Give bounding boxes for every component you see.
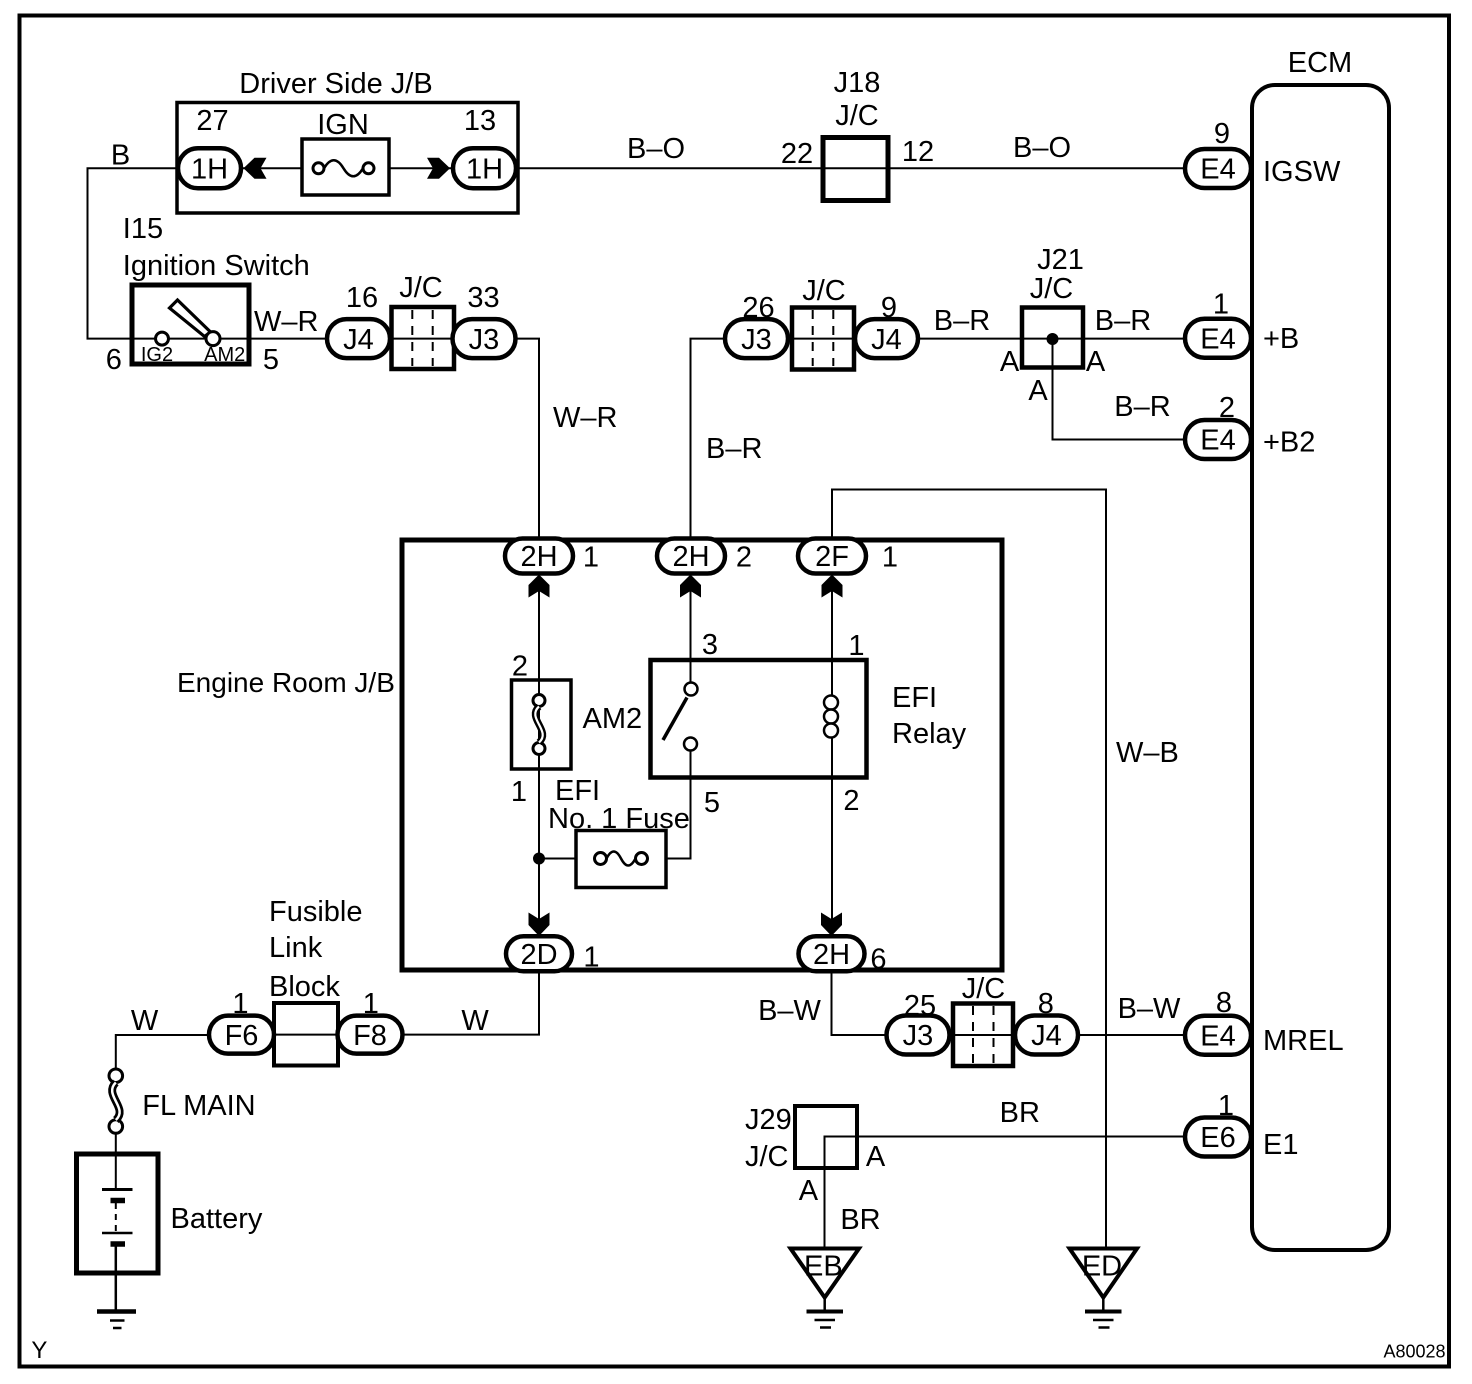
svg-text:EFI: EFI xyxy=(892,682,937,714)
svg-text:A80028: A80028 xyxy=(1384,1342,1446,1362)
wire from 2H-1 through AM2 fuse to 2D-1 xyxy=(538,575,540,936)
svg-text:J3: J3 xyxy=(469,324,500,356)
connector 2H pin 6 xyxy=(799,936,887,975)
connector 2F pin 1 xyxy=(798,539,898,574)
connector J4 pin 8 xyxy=(1015,988,1078,1055)
arrow into 2H-2 xyxy=(680,575,701,598)
svg-text:E4: E4 xyxy=(1200,425,1235,457)
fuse IGN xyxy=(302,109,389,195)
junction block Driver Side J/B xyxy=(177,68,518,213)
svg-text:F8: F8 xyxy=(353,1020,387,1052)
svg-text:2H: 2H xyxy=(813,939,850,971)
wire W-B from 2F-1 over to ED ground xyxy=(832,490,1179,1249)
svg-text:8: 8 xyxy=(1216,987,1232,1019)
svg-text:J/C: J/C xyxy=(835,100,879,132)
wire B-R from J3-26 down to 2H-2 xyxy=(691,339,763,539)
wire from EFI No.1 fuse to junction node xyxy=(539,858,576,860)
connector 1H pin 13 xyxy=(453,105,516,188)
svg-text:J/C: J/C xyxy=(399,272,443,304)
svg-text:F6: F6 xyxy=(225,1020,259,1052)
connector 2D pin 1 xyxy=(506,936,600,973)
arrow into 2H-1 xyxy=(529,575,550,598)
svg-text:J4: J4 xyxy=(343,324,374,356)
svg-text:5: 5 xyxy=(263,344,279,376)
svg-text:+B2: +B2 xyxy=(1263,427,1315,459)
svg-text:J18: J18 xyxy=(834,67,881,99)
svg-text:B–W: B–W xyxy=(758,995,821,1027)
svg-text:A: A xyxy=(799,1175,819,1207)
svg-text:1: 1 xyxy=(1218,1090,1234,1122)
junction node A in J21 xyxy=(1047,334,1058,345)
wire W-R from ignition switch to J4-16 xyxy=(251,306,327,339)
connector F6 pin 1 xyxy=(209,988,274,1054)
connector E6 pin 1 E1 xyxy=(1185,1090,1298,1161)
connector E4 pin 8 MREL xyxy=(1185,987,1344,1057)
svg-text:16: 16 xyxy=(346,282,378,314)
svg-text:J4: J4 xyxy=(1031,1020,1062,1052)
svg-text:+B: +B xyxy=(1263,323,1299,355)
junction connector J/C 25-8 xyxy=(953,973,1013,1066)
svg-text:IGN: IGN xyxy=(317,109,369,141)
svg-text:1: 1 xyxy=(363,988,379,1020)
svg-text:1: 1 xyxy=(583,542,599,574)
junction node on AM2 wire xyxy=(534,853,545,864)
svg-text:Battery: Battery xyxy=(171,1203,263,1235)
svg-text:27: 27 xyxy=(196,105,228,137)
svg-text:J/C: J/C xyxy=(802,275,846,307)
svg-text:W: W xyxy=(461,1005,489,1037)
svg-text:E1: E1 xyxy=(1263,1129,1298,1161)
svg-text:1H: 1H xyxy=(191,154,228,186)
svg-text:2: 2 xyxy=(736,542,752,574)
svg-text:22: 22 xyxy=(781,138,813,170)
fuse EFI No. 1 Fuse xyxy=(548,775,690,888)
junction block Engine Room J/B xyxy=(177,540,1002,970)
connector J3 pin 25 xyxy=(887,990,950,1055)
connector J3 pin 26 xyxy=(725,292,788,358)
svg-text:12: 12 xyxy=(902,136,934,168)
svg-text:1H: 1H xyxy=(466,154,503,186)
svg-text:AM2: AM2 xyxy=(583,703,643,735)
svg-text:E4: E4 xyxy=(1200,323,1235,355)
wire through J/C 16-33 xyxy=(391,338,455,340)
svg-text:E4: E4 xyxy=(1200,1021,1235,1053)
svg-text:A: A xyxy=(1000,346,1020,378)
svg-text:1: 1 xyxy=(232,988,248,1020)
ground EB xyxy=(791,1249,860,1328)
svg-text:Driver Side J/B: Driver Side J/B xyxy=(239,68,432,100)
wire B-W from 2H-6 to J3-25 xyxy=(758,971,887,1035)
svg-text:2: 2 xyxy=(1219,392,1235,424)
svg-text:B–W: B–W xyxy=(1118,993,1181,1025)
svg-text:Link: Link xyxy=(269,932,323,964)
ground ED xyxy=(1070,1249,1138,1328)
wire B-R from J21 node A down to E4-2 xyxy=(1053,339,1186,440)
svg-text:J3: J3 xyxy=(741,324,772,356)
svg-text:3: 3 xyxy=(702,629,718,661)
svg-text:1: 1 xyxy=(1213,289,1229,321)
svg-text:6: 6 xyxy=(870,944,886,976)
connector E4 pin 2 +B2 xyxy=(1185,392,1315,459)
svg-text:2: 2 xyxy=(843,785,859,817)
svg-text:B–R: B–R xyxy=(706,433,762,465)
svg-text:A: A xyxy=(1086,346,1106,378)
svg-text:ECM: ECM xyxy=(1288,47,1352,79)
arrow into 2H-6 xyxy=(821,913,842,937)
svg-text:B–R: B–R xyxy=(934,305,990,337)
svg-text:W–R: W–R xyxy=(553,402,617,434)
connector J4 pin 9 xyxy=(855,292,918,358)
svg-text:A: A xyxy=(866,1141,886,1173)
svg-text:B–O: B–O xyxy=(1013,132,1071,164)
svg-text:J29: J29 xyxy=(745,1104,792,1136)
svg-text:8: 8 xyxy=(1038,988,1054,1020)
svg-text:1: 1 xyxy=(511,776,527,808)
wire from 2F-1 through relay coil to 2H-6 xyxy=(831,575,833,936)
svg-text:IG2: IG2 xyxy=(141,344,173,366)
svg-text:IGSW: IGSW xyxy=(1263,156,1341,188)
connector F8 pin 1 xyxy=(338,988,403,1054)
svg-text:ED: ED xyxy=(1082,1251,1122,1283)
svg-text:33: 33 xyxy=(467,282,499,314)
junction connector J/C 26-9 xyxy=(792,275,854,370)
svg-text:Engine Room J/B: Engine Room J/B xyxy=(177,667,395,698)
connector 2H pin 1 xyxy=(505,539,599,574)
svg-text:A: A xyxy=(1028,375,1048,407)
relay EFI Relay xyxy=(651,629,967,819)
wire B-R from J4-9 to J21 to E4-1 xyxy=(918,305,1185,339)
svg-text:13: 13 xyxy=(464,105,496,137)
connector E4 pin 9 IGSW xyxy=(1185,118,1341,188)
svg-text:FL MAIN: FL MAIN xyxy=(142,1090,255,1122)
svg-text:AM2: AM2 xyxy=(204,344,245,366)
svg-text:W–R: W–R xyxy=(254,306,318,338)
wire B from battery net to 1H-27 and ignition switch xyxy=(88,140,179,339)
svg-text:Y: Y xyxy=(31,1337,47,1364)
wire inside Driver Side J/B left segment xyxy=(241,167,302,169)
junction connector J29 J/C xyxy=(745,1104,886,1207)
svg-text:J21: J21 xyxy=(1037,244,1084,276)
svg-text:B–R: B–R xyxy=(1095,305,1151,337)
connector 1H pin 27 xyxy=(178,105,241,188)
connector J4 pin 16 xyxy=(327,282,390,358)
svg-text:2F: 2F xyxy=(815,541,849,573)
svg-text:BR: BR xyxy=(1000,1097,1040,1129)
ECM xyxy=(1252,47,1389,1250)
svg-text:MREL: MREL xyxy=(1263,1025,1344,1057)
svg-text:J/C: J/C xyxy=(745,1141,789,1173)
svg-text:25: 25 xyxy=(904,990,936,1022)
svg-text:1: 1 xyxy=(882,542,898,574)
wire W-R from J3-33 down to 2H-1 xyxy=(516,339,618,539)
svg-text:Block: Block xyxy=(269,971,340,1003)
svg-text:E4: E4 xyxy=(1200,154,1235,186)
svg-text:Relay: Relay xyxy=(892,718,967,750)
ignition switch I15 xyxy=(106,213,310,376)
svg-text:1: 1 xyxy=(848,630,864,662)
connector J3 pin 33 xyxy=(453,282,516,358)
svg-text:2D: 2D xyxy=(520,939,557,971)
junction connector J/C 16-33 xyxy=(392,272,455,369)
svg-text:I15: I15 xyxy=(123,213,163,245)
fusible link block xyxy=(269,896,363,1066)
wire inside Driver Side J/B right segment xyxy=(389,167,453,169)
wire from relay pin 5 to EFI No.1 fuse xyxy=(666,751,691,859)
wire from 2H-2 to relay pin 3 xyxy=(690,575,692,684)
svg-text:J4: J4 xyxy=(871,324,902,356)
svg-text:6: 6 xyxy=(106,344,122,376)
svg-text:B: B xyxy=(111,140,130,172)
svg-text:EB: EB xyxy=(804,1251,843,1283)
svg-text:9: 9 xyxy=(1214,118,1230,150)
arrow toward 1H-27 xyxy=(244,158,267,179)
svg-text:Ignition Switch: Ignition Switch xyxy=(123,250,310,282)
svg-text:2H: 2H xyxy=(520,541,557,573)
wire from FL MAIN to battery xyxy=(115,1133,117,1154)
fuse AM2 xyxy=(511,651,642,808)
wire through J/C 25-8 xyxy=(953,1034,1015,1036)
svg-text:J3: J3 xyxy=(903,1020,934,1052)
svg-text:W–B: W–B xyxy=(1116,737,1179,769)
ground battery xyxy=(97,1312,136,1329)
junction connector J18 J/C xyxy=(781,67,934,201)
arrow into 2D-1 xyxy=(529,913,550,937)
svg-text:B–R: B–R xyxy=(1114,391,1170,423)
arrow into 2F-1 xyxy=(822,575,843,598)
svg-text:E6: E6 xyxy=(1200,1122,1235,1154)
wire BR from E6-1 through J29 to EB ground xyxy=(825,1097,1186,1248)
junction connector J21 J/C xyxy=(1000,244,1106,407)
wire through J/C 26-9 xyxy=(788,338,856,340)
svg-text:2: 2 xyxy=(512,651,528,683)
svg-text:9: 9 xyxy=(881,292,897,324)
svg-text:B–O: B–O xyxy=(627,133,685,165)
svg-text:2H: 2H xyxy=(672,541,709,573)
battery xyxy=(77,1154,263,1310)
wire W from battery to F6 and F8 to 2D-1 xyxy=(116,972,539,1069)
wire B-O from 1H-13 to J18 to E4-9 xyxy=(516,132,1185,168)
svg-text:1: 1 xyxy=(583,942,599,974)
wire B-W from J4-8 to E4-8 xyxy=(1078,993,1185,1035)
connector E4 pin 1 +B xyxy=(1185,289,1299,358)
fusible link FL MAIN xyxy=(109,1069,256,1133)
connector 2H pin 2 xyxy=(657,539,752,574)
arrow toward 1H-13 xyxy=(427,158,450,179)
svg-text:J/C: J/C xyxy=(1030,273,1074,305)
svg-text:Fusible: Fusible xyxy=(269,896,363,928)
svg-text:BR: BR xyxy=(840,1204,880,1236)
svg-text:26: 26 xyxy=(742,292,774,324)
svg-text:J/C: J/C xyxy=(962,973,1006,1005)
svg-text:5: 5 xyxy=(704,787,720,819)
svg-text:W: W xyxy=(131,1005,159,1037)
